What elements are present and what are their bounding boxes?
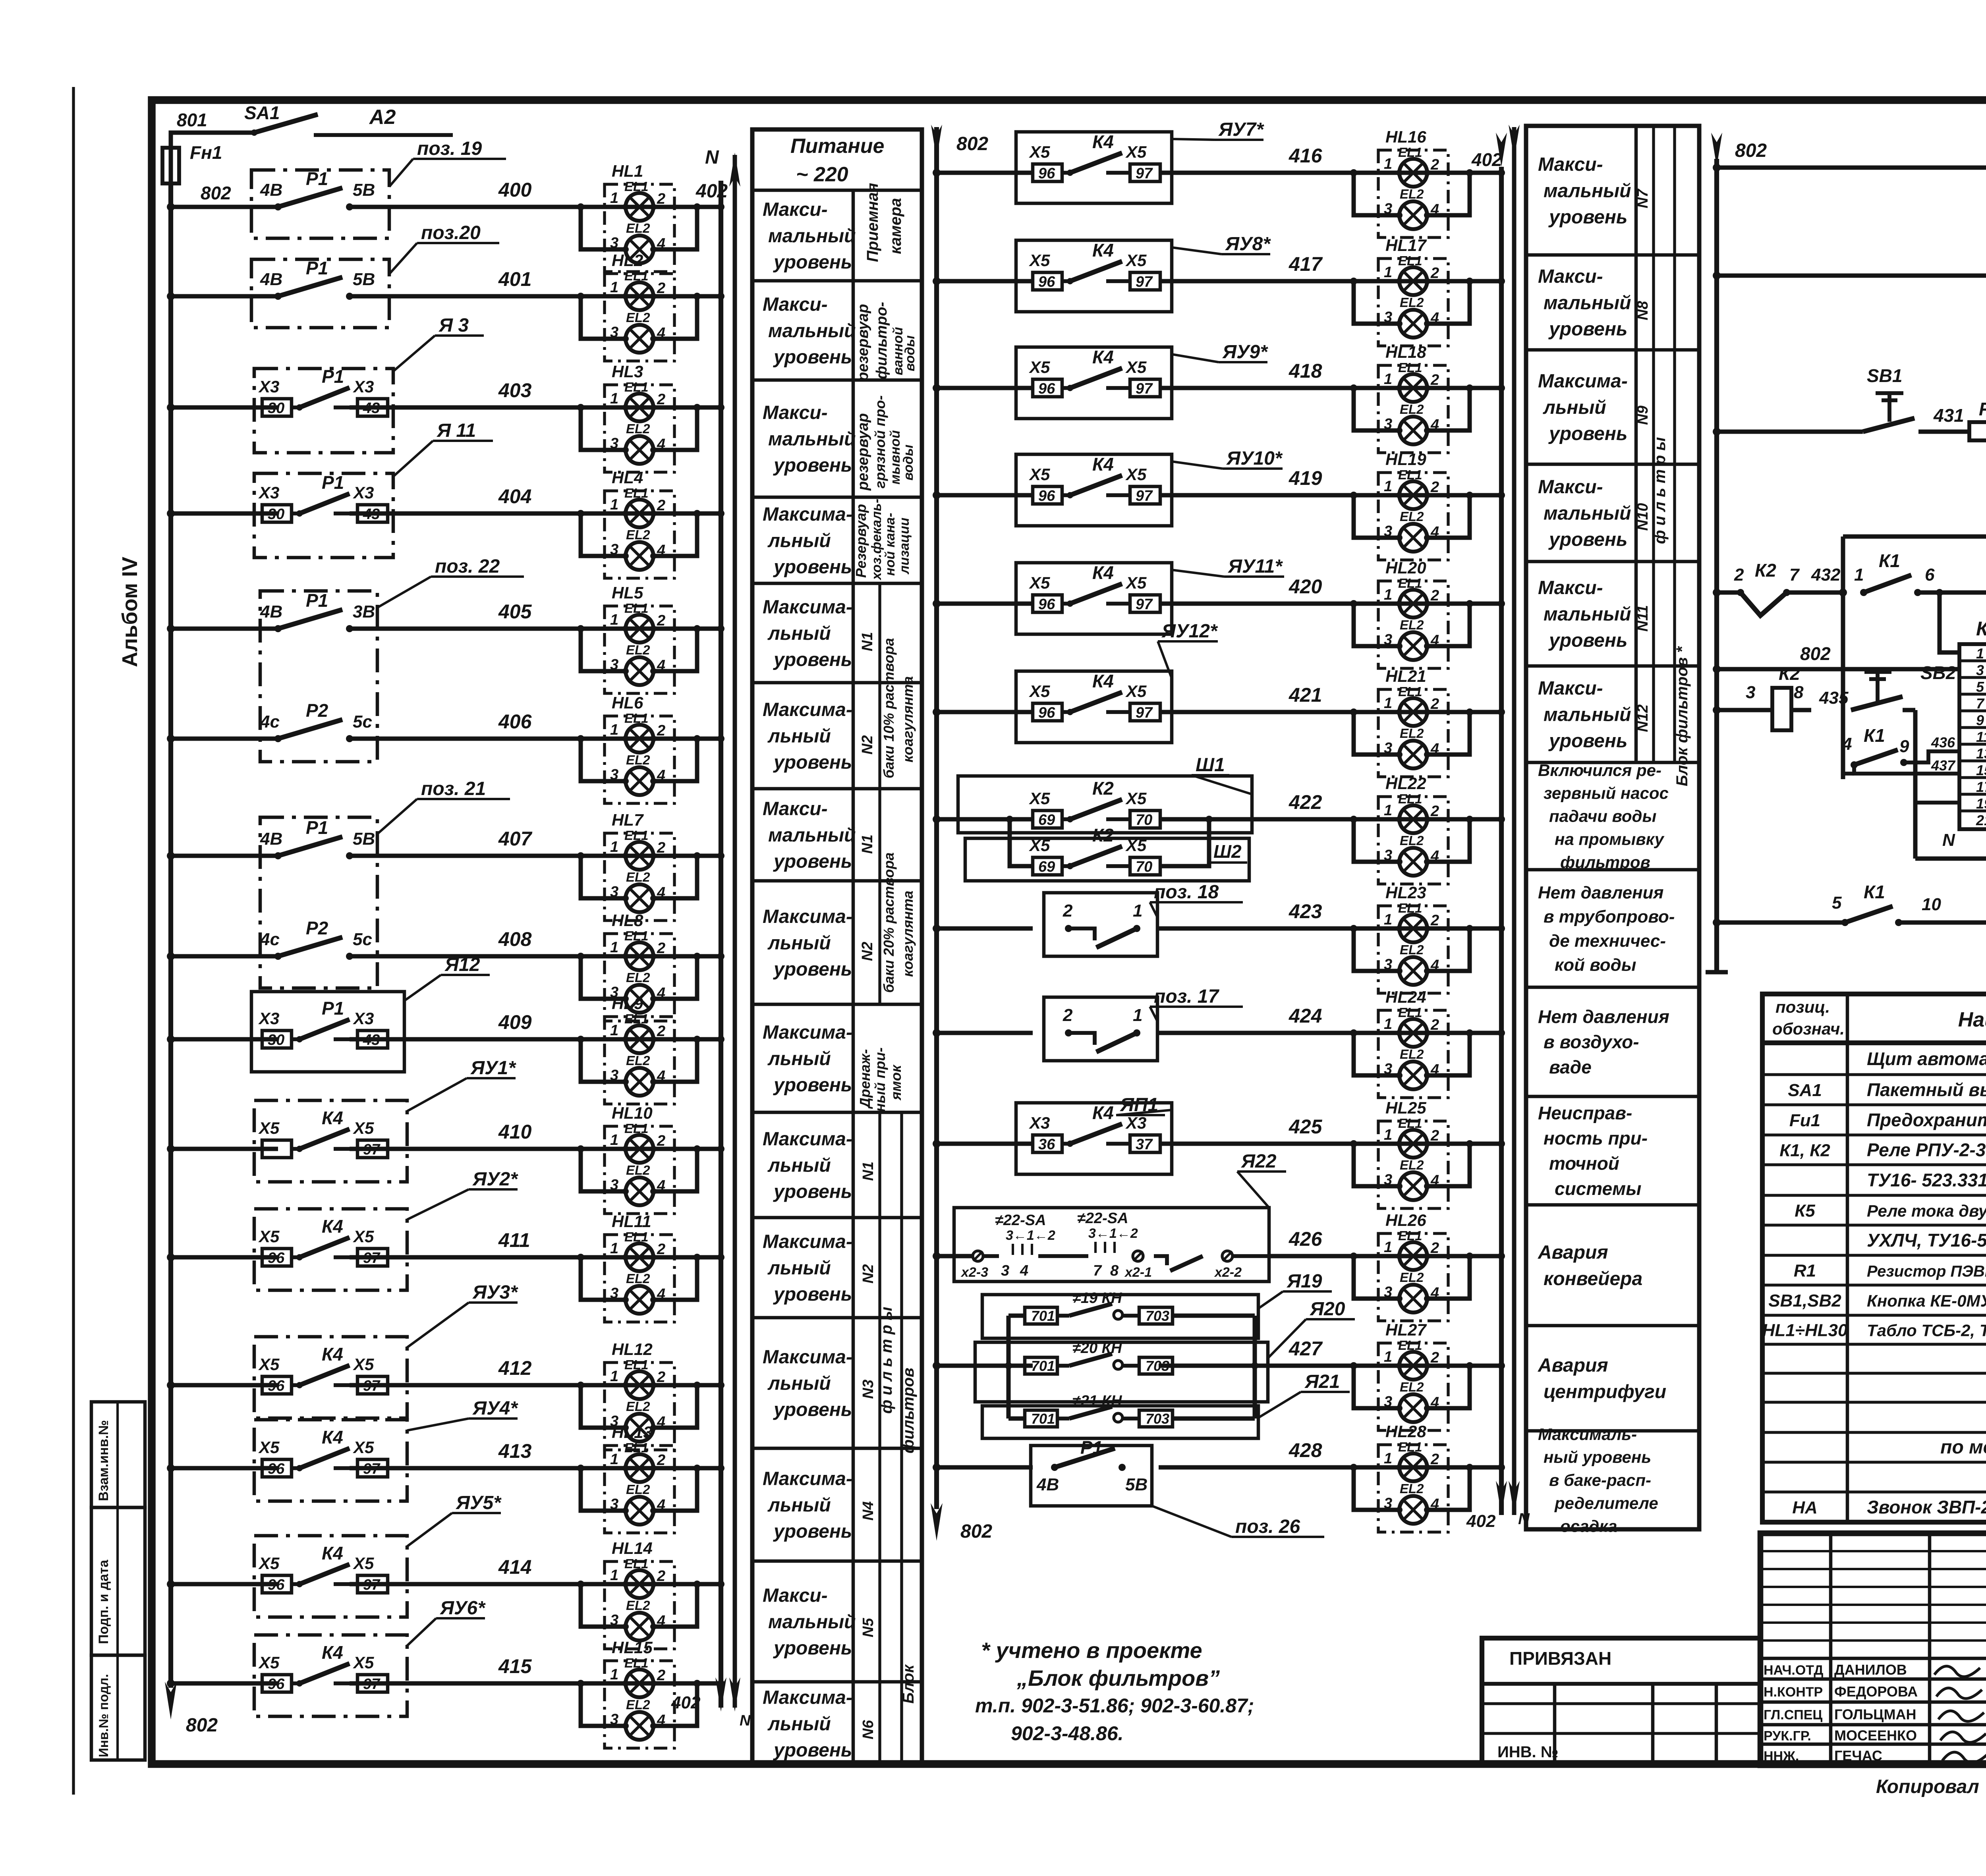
svg-text:К4: К4 (1092, 562, 1114, 583)
svg-text:Р1: Р1 (306, 258, 328, 278)
svg-text:HL5: HL5 (612, 583, 643, 602)
svg-text:РУК.ГР.: РУК.ГР. (1764, 1729, 1811, 1744)
lamp HL4 EL2 (626, 542, 653, 570)
svg-text:поз. 22: поз. 22 (435, 556, 500, 577)
svg-text:435: 435 (1819, 688, 1849, 708)
svg-text:5: 5 (1976, 679, 1984, 695)
lamp HL16 EL1 (1399, 159, 1427, 187)
svg-text:96: 96 (268, 1676, 285, 1693)
svg-text:Х5: Х5 (258, 1119, 280, 1137)
svg-text:97: 97 (363, 1141, 381, 1158)
wire row 410 (171, 1147, 278, 1151)
wire 801 (171, 133, 254, 183)
svg-text:ГЕЧАС: ГЕЧАС (1834, 1748, 1882, 1764)
branch ≠21 КН (1025, 1410, 1057, 1427)
wire 437 (1854, 765, 1959, 774)
svg-text:резервуар: резервуар (855, 413, 871, 491)
relay box ЯУ3* (254, 1337, 407, 1418)
wire row 409 (171, 1037, 278, 1042)
svg-text:1: 1 (610, 722, 618, 738)
svg-text:Х3: Х3 (353, 1009, 374, 1028)
wire EL2 branch (581, 739, 626, 781)
svg-text:К4: К4 (1092, 671, 1114, 691)
wire EL2 branch (581, 1385, 626, 1428)
svg-text:точной: точной (1549, 1153, 1619, 1173)
svg-text:EL2: EL2 (1400, 618, 1424, 632)
wire to bus 402 (1470, 1142, 1501, 1146)
contact К4 with terminals (1033, 1135, 1062, 1152)
svg-text:уровень: уровень (1548, 319, 1627, 340)
svg-text:Х5: Х5 (258, 1355, 280, 1374)
svg-text:уровень: уровень (773, 959, 852, 980)
svg-text:Максима-: Максима- (1538, 371, 1628, 392)
svg-text:97: 97 (363, 1676, 381, 1693)
svg-text:414: 414 (498, 1556, 531, 1578)
svg-text:К4: К4 (322, 1344, 343, 1365)
svg-text:2: 2 (1430, 265, 1439, 282)
switch box поз.17 (1044, 997, 1157, 1061)
svg-text:Ш1: Ш1 (1196, 755, 1225, 776)
stamp box Привязан (1482, 1638, 1760, 1765)
svg-text:уровень: уровень (773, 557, 852, 578)
svg-text:HL16: HL16 (1385, 127, 1426, 146)
svg-text:Макси-: Макси- (1538, 154, 1603, 175)
svg-text:HL26: HL26 (1385, 1211, 1426, 1229)
svg-text:7: 7 (1789, 565, 1800, 585)
svg-text:мальный: мальный (768, 226, 856, 247)
svg-text:льный: льный (767, 1258, 831, 1279)
wire EL2 branch (1354, 1467, 1399, 1510)
svg-text:432: 432 (1811, 565, 1841, 585)
title block (1760, 1533, 1986, 1765)
lamp HL20 EL2 (1399, 632, 1427, 660)
wire to bus 402 (1470, 710, 1501, 714)
svg-text:N11: N11 (1634, 605, 1651, 632)
svg-text:EL1: EL1 (1398, 901, 1422, 915)
lamp HL8 EL1 (626, 942, 653, 970)
lamp HL14 EL2 (626, 1613, 653, 1641)
svg-text:Максима-: Максима- (763, 1022, 852, 1043)
svg-text:К1, К2: К1, К2 (1779, 1141, 1830, 1160)
lamp HL21 EL1 (1399, 698, 1427, 726)
bus N left ladder (733, 155, 737, 1708)
svg-text:EL2: EL2 (626, 527, 650, 542)
svg-text:К4: К4 (1092, 131, 1114, 152)
wire EL2 branch (1354, 1256, 1399, 1299)
svg-text:2: 2 (657, 1369, 665, 1386)
svg-text:Реле РПУ-2-3622 0УЗ; 220В; 50: Реле РПУ-2-3622 0УЗ; 220В; 50Гц (1867, 1140, 1986, 1160)
svg-text:97: 97 (1136, 380, 1153, 397)
svg-text:уровень: уровень (773, 649, 852, 670)
svg-text:резервуар: резервуар (855, 304, 871, 382)
middle bus 402 (1499, 167, 1504, 1515)
contact К4 with terminals (262, 1675, 292, 1692)
lamp block HL2 (577, 251, 724, 361)
wire row 435 (1717, 708, 1772, 712)
svg-text:EL2: EL2 (626, 970, 650, 985)
svg-text:Р1: Р1 (306, 168, 328, 189)
svg-text:1: 1 (610, 1567, 618, 1584)
lamp block HL12 (577, 1340, 724, 1450)
switch SA1 (251, 129, 257, 136)
svg-text:Х5: Х5 (258, 1227, 280, 1246)
svg-text:Предохранитель, Зпл.Вст. 2А: Предохранитель, Зпл.Вст. 2А (1867, 1110, 1986, 1130)
svg-text:EL1: EL1 (1398, 791, 1422, 806)
svg-text:К2: К2 (1092, 778, 1114, 799)
svg-text:97: 97 (1136, 274, 1153, 290)
wire to bus 402 (697, 954, 721, 959)
svg-text:Х5: Х5 (1125, 682, 1147, 701)
svg-text:EL1: EL1 (624, 179, 649, 194)
wire row 431 (1717, 430, 1863, 434)
lamp HL26 EL2 (1399, 1285, 1427, 1312)
svg-text:К4: К4 (1092, 240, 1114, 261)
svg-text:мальный: мальный (1544, 292, 1631, 313)
svg-text:Х5: Х5 (353, 1119, 374, 1137)
wire 436 (1904, 751, 1959, 762)
svg-text:EL2: EL2 (626, 421, 650, 436)
wire row 427 (937, 1364, 1033, 1368)
svg-text:HL24: HL24 (1385, 988, 1426, 1006)
svg-text:льный: льный (767, 1495, 831, 1516)
svg-text:3←1←2: 3←1←2 (1088, 1226, 1138, 1241)
svg-text:411: 411 (498, 1229, 530, 1251)
svg-text:Х5: Х5 (1029, 789, 1050, 808)
wire row 403 (171, 405, 278, 410)
svg-text:зервный насос: зервный насос (1544, 784, 1669, 803)
contact Р1 (274, 625, 282, 632)
signal table column 1 (752, 129, 922, 1765)
svg-text:де техничес-: де техничес- (1549, 931, 1666, 951)
wire EL2 branch (581, 1683, 626, 1726)
svg-text:в трубопрово-: в трубопрово- (1544, 907, 1675, 926)
svg-text:EL1: EL1 (1398, 1338, 1422, 1353)
svg-text:мальный: мальный (1544, 604, 1631, 625)
svg-text:801: 801 (177, 110, 207, 130)
wire EL2 branch (581, 629, 626, 671)
svg-text:HL7: HL7 (612, 811, 644, 829)
relay box ЯУ8* (1016, 240, 1172, 312)
svg-text:802: 802 (1735, 140, 1767, 161)
svg-text:Я21: Я21 (1304, 1371, 1340, 1392)
svg-text:96: 96 (1038, 165, 1055, 182)
svg-text:SB1: SB1 (1867, 365, 1902, 386)
svg-text:К1: К1 (1864, 725, 1885, 746)
svg-text:2: 2 (1430, 372, 1439, 388)
svg-text:УХЛЧ, ТУ16-523. 601-81: УХЛЧ, ТУ16-523. 601-81 (1867, 1230, 1986, 1251)
svg-text:N6: N6 (860, 1720, 877, 1739)
lamp HL27 EL2 (1399, 1394, 1427, 1422)
svg-text:EL2: EL2 (1400, 1047, 1424, 1062)
wire row 419 (937, 493, 1033, 498)
svg-text:ЯУ11*: ЯУ11* (1227, 556, 1283, 577)
svg-text:Максима-: Максима- (763, 1231, 852, 1253)
svg-text:Макси-: Макси- (763, 402, 828, 423)
svg-text:уровень: уровень (773, 347, 852, 368)
wire row 412 (171, 1383, 278, 1388)
svg-text:HL14: HL14 (612, 1539, 653, 1558)
relay box Я19 (982, 1295, 1258, 1338)
svg-text:2: 2 (657, 940, 665, 957)
svg-text:Р1: Р1 (1080, 1437, 1103, 1458)
svg-text:11: 11 (1976, 729, 1986, 745)
svg-text:3: 3 (1976, 662, 1984, 678)
wire to bus 402 (1470, 493, 1501, 498)
svg-text:системы: системы (1555, 1178, 1641, 1199)
wire row 421 (937, 710, 1033, 714)
svg-text:N: N (705, 147, 719, 168)
signal table column 2 (1526, 126, 1699, 1529)
svg-text:Х3: Х3 (258, 1009, 279, 1028)
svg-text:поз. 19: поз. 19 (417, 138, 482, 159)
svg-text:N8: N8 (1634, 301, 1651, 320)
svg-text:2: 2 (1430, 803, 1439, 820)
wire link to N (1843, 535, 1986, 539)
svg-text:EL2: EL2 (626, 1053, 650, 1068)
lamp block HL9 (577, 994, 724, 1104)
svg-text:2: 2 (657, 612, 665, 629)
svg-text:97: 97 (1136, 165, 1153, 182)
svg-text:4с: 4с (260, 930, 280, 949)
svg-text:SB1,SB2: SB1,SB2 (1768, 1291, 1841, 1310)
wire to bus 402 (697, 294, 721, 299)
svg-text:мальный: мальный (768, 428, 856, 450)
resistor R1 (1918, 430, 1969, 434)
svg-text:420: 420 (1289, 575, 1322, 598)
svg-text:К4: К4 (1092, 1102, 1114, 1123)
wire to bus 402 (1470, 926, 1501, 931)
svg-text:30: 30 (268, 1032, 284, 1048)
svg-text:1: 1 (1384, 911, 1392, 928)
svg-text:ФЕДОРОВА: ФЕДОРОВА (1834, 1683, 1918, 1700)
lamp HL23 EL1 (1399, 915, 1427, 942)
svg-text:Максима-: Максима- (763, 1347, 852, 1368)
svg-text:424: 424 (1289, 1005, 1322, 1027)
svg-text:Максима-: Максима- (763, 597, 852, 618)
svg-text:423: 423 (1289, 900, 1322, 923)
lamp block HL8 (577, 911, 724, 1021)
svg-text:уровень: уровень (773, 1740, 852, 1761)
svg-text:902-3-48.86.: 902-3-48.86. (1011, 1722, 1124, 1745)
relay box ЯУ6* (254, 1635, 407, 1716)
svg-text:Дренаж-: Дренаж- (857, 1049, 873, 1109)
svg-text:410: 410 (498, 1121, 532, 1143)
svg-text:4В: 4В (260, 270, 282, 289)
svg-text:EL2: EL2 (1400, 1270, 1424, 1285)
col1 divider N col rows 405-408 (878, 583, 881, 1004)
svg-text:2: 2 (657, 1241, 665, 1258)
svg-text:96: 96 (268, 1577, 285, 1593)
lamp HL1 EL1 (626, 193, 653, 221)
left bus 802 bottom arrow (168, 1656, 173, 1688)
svg-text:436: 436 (1931, 734, 1955, 751)
svg-text:402: 402 (1466, 1511, 1496, 1531)
svg-text:70: 70 (1136, 859, 1152, 875)
lamp block HL4 (577, 468, 724, 578)
lamp block HL17 (1350, 236, 1505, 346)
fuse Fu1 (162, 148, 179, 183)
svg-text:К5: К5 (1795, 1201, 1815, 1221)
svg-text:Щит автоматизации кип: Щит автоматизации кип (1867, 1048, 1986, 1069)
svg-text:SA1: SA1 (244, 102, 280, 123)
svg-text:Макси-: Макси- (1538, 477, 1603, 498)
lamp HL13 EL2 (626, 1497, 653, 1525)
svg-text:2: 2 (1430, 1240, 1439, 1256)
wire row 428 (937, 1465, 1033, 1470)
svg-text:льный: льный (1543, 397, 1606, 418)
wire to bus 402 (697, 854, 721, 858)
wire to bus 402 (697, 511, 721, 516)
svg-text:ф и л ь т р ы: ф и л ь т р ы (1651, 437, 1669, 544)
svg-text:Резервуар: Резервуар (853, 504, 869, 578)
svg-text:Неисправ-: Неисправ- (1538, 1102, 1632, 1123)
svg-text:7: 7 (1976, 695, 1985, 712)
col1 N strips rows 410-415 (878, 1112, 881, 1765)
lamp block HL15 (577, 1638, 724, 1748)
svg-text:401: 401 (498, 268, 531, 290)
svg-text:EL1: EL1 (1398, 1005, 1422, 1020)
svg-text:1: 1 (1384, 478, 1392, 495)
wire to bus 402 (697, 1147, 721, 1151)
svg-text:1: 1 (1384, 1127, 1392, 1143)
svg-text:2: 2 (1430, 1349, 1439, 1366)
svg-text:2: 2 (657, 497, 665, 514)
contact К4 with terminals (262, 1376, 292, 1394)
wire row 426 (937, 1254, 973, 1258)
svg-text:SB2: SB2 (1920, 662, 1956, 683)
svg-text:льный: льный (767, 932, 831, 953)
svg-text:1: 1 (610, 839, 618, 855)
svg-text:1: 1 (610, 390, 618, 407)
lamp block HL18 (1350, 343, 1505, 453)
svg-text:коагулянта: коагулянта (900, 676, 916, 762)
svg-text:уровень: уровень (1548, 423, 1627, 444)
svg-text:ЯУ5*: ЯУ5* (455, 1492, 502, 1513)
wire EL2 branch (1354, 1366, 1399, 1408)
svg-text:97: 97 (363, 1577, 381, 1593)
wire row 424 (937, 1031, 1033, 1035)
svg-text:Х5: Х5 (1029, 836, 1050, 855)
svg-text:Наименование: Наименование (1958, 1008, 1986, 1031)
stamp box Взам.инв.№ (91, 1402, 145, 1507)
lamp HL28 EL2 (1399, 1496, 1427, 1524)
svg-text:Я19: Я19 (1286, 1271, 1322, 1292)
svg-text:EL2: EL2 (626, 643, 650, 657)
svg-text:ЯУ10*: ЯУ10* (1226, 448, 1283, 469)
wire to bus 402 (697, 1383, 721, 1388)
lamp block HL20 (1350, 558, 1505, 668)
contact К4 with terminals (1033, 703, 1062, 721)
svg-text:Х3: Х3 (258, 483, 279, 502)
lamp HL15 EL1 (626, 1669, 653, 1697)
wire row 407 (171, 854, 278, 858)
svg-text:баки 10% раствора: баки 10% раствора (881, 638, 897, 779)
svg-text:HL4: HL4 (612, 468, 643, 487)
svg-text:426: 426 (1289, 1228, 1323, 1250)
svg-text:EL1: EL1 (1398, 145, 1422, 160)
svg-text:8: 8 (1794, 683, 1804, 702)
svg-text:EL2: EL2 (626, 1482, 650, 1497)
svg-text:≠19 КН: ≠19 КН (1072, 1290, 1122, 1307)
svg-text:70: 70 (1136, 812, 1152, 828)
lamp HL14 EL1 (626, 1570, 653, 1598)
contact К4 with terminals (1033, 486, 1062, 504)
lamp block HL23 (1350, 883, 1505, 993)
svg-text:402: 402 (1471, 149, 1502, 170)
svg-text:ной кана-: ной кана- (883, 513, 898, 576)
wire EL2 branch (581, 956, 626, 999)
svg-text:~ 220: ~ 220 (796, 163, 848, 186)
svg-text:центрифуги: центрифуги (1544, 1381, 1666, 1402)
svg-text:уровень: уровень (773, 455, 852, 476)
svg-text:EL1: EL1 (1398, 576, 1422, 591)
wire to bus 402 (1470, 1465, 1501, 1470)
svg-text:419: 419 (1289, 467, 1322, 489)
wire EL2 branch (1354, 388, 1399, 430)
wire row 422 (937, 817, 1033, 822)
lamp HL28 EL1 (1399, 1453, 1427, 1481)
svg-text:1: 1 (1384, 802, 1392, 819)
svg-text:мальный: мальный (1544, 180, 1631, 201)
svg-text:Ш2: Ш2 (1213, 841, 1242, 862)
svg-text:НА: НА (1792, 1498, 1818, 1517)
lamp HL2 EL2 (626, 325, 653, 353)
svg-text:EL1: EL1 (1398, 684, 1422, 699)
relay box Я12 (251, 992, 404, 1072)
contact Р1 (274, 852, 282, 859)
svg-text:N2: N2 (860, 1264, 877, 1283)
svg-text:Х3: Х3 (353, 377, 374, 396)
svg-text:Макси-: Макси- (763, 294, 828, 315)
svg-text:9: 9 (1976, 712, 1984, 728)
relay box ЯУ5* (254, 1536, 407, 1617)
svg-text:5В: 5В (1125, 1475, 1148, 1494)
wire EL2 branch (581, 1257, 626, 1300)
svg-text:402: 402 (695, 181, 728, 202)
svg-text:15: 15 (1976, 762, 1986, 778)
svg-text:2: 2 (657, 722, 665, 739)
relay box Я21 (982, 1406, 1258, 1438)
svg-text:уровень: уровень (773, 1284, 852, 1305)
lamp HL13 EL1 (626, 1454, 653, 1482)
relay box ЯУ4* (254, 1420, 407, 1501)
relay box Ш1 (958, 776, 1252, 833)
svg-text:N2: N2 (859, 942, 876, 961)
svg-text:Нет давления: Нет давления (1538, 1006, 1669, 1027)
wire row 413 (171, 1466, 278, 1471)
svg-text:„Блок фильтров”: „Блок фильтров” (1016, 1666, 1220, 1691)
wire row 425 (937, 1142, 1033, 1146)
svg-text:А2: А2 (369, 106, 396, 129)
svg-text:17: 17 (1976, 779, 1986, 795)
svg-text:HL25: HL25 (1385, 1098, 1426, 1117)
svg-text:ный при-: ный при- (872, 1048, 888, 1112)
wire EL2 branch (581, 1468, 626, 1511)
svg-text:Приемная: Приемная (864, 183, 881, 262)
lamp block HL16 (1350, 127, 1505, 237)
wire to bus 402 (697, 1037, 721, 1042)
svg-text:Максима-: Максима- (763, 906, 852, 927)
svg-text:EL1: EL1 (1398, 253, 1422, 268)
svg-text:К2: К2 (1755, 560, 1776, 581)
svg-text:мальный: мальный (1544, 503, 1631, 524)
svg-text:EL1: EL1 (624, 486, 649, 500)
wire to bus 402 (697, 1255, 721, 1260)
lamp HL6 EL2 (626, 767, 653, 795)
wire to bus 402 (1470, 1254, 1501, 1258)
svg-text:позиц.: позиц. (1775, 998, 1830, 1016)
svg-text:2: 2 (657, 1023, 665, 1040)
